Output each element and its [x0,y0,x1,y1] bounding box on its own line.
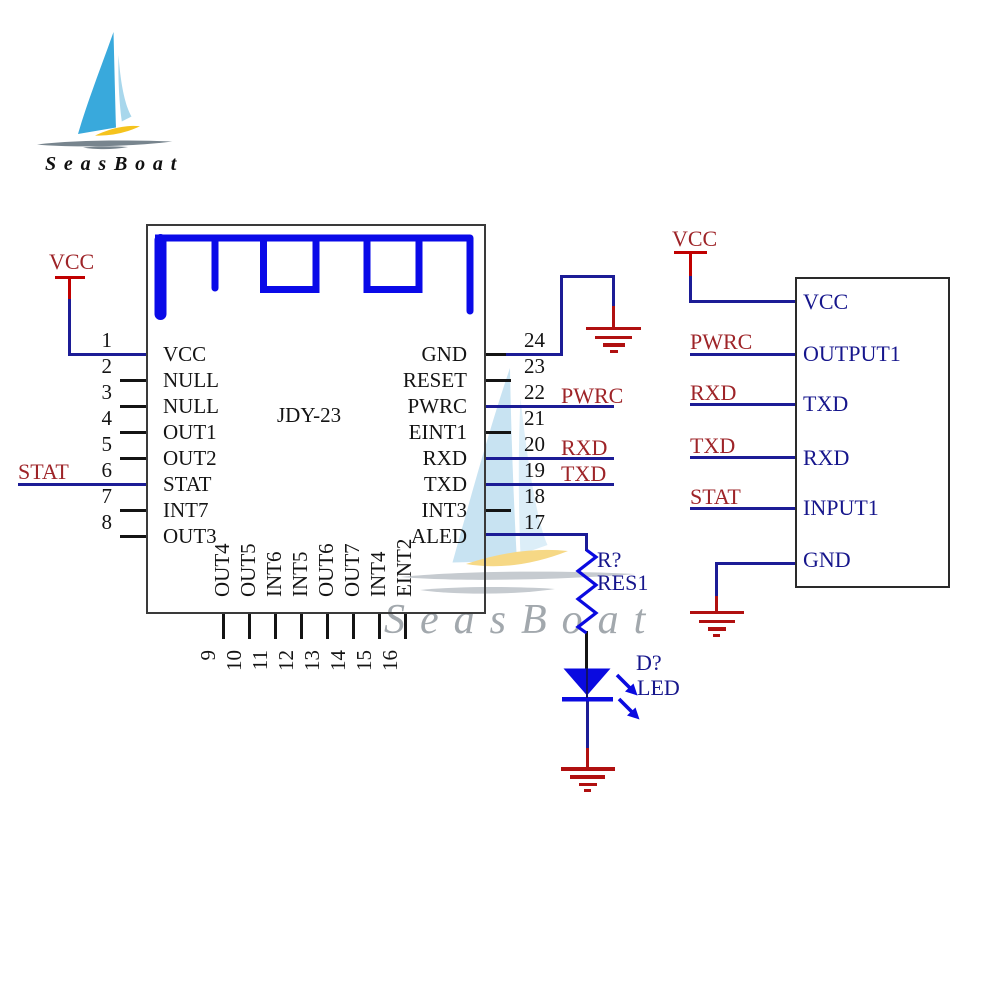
pin number 2 [0,356,112,377]
pin number 16 (rotated) [380,650,401,671]
IC value label JDY-23 [277,405,341,426]
block pin name GND [803,549,851,571]
pin 24 name GND [0,344,467,365]
block pin name OUTPUT1 [803,343,901,365]
pin 22 name PWRC [0,396,467,417]
LED D1 symbol with arrows [0,0,1000,765]
pin 4 name OUT1 [163,422,217,443]
pin 5 stub [120,457,147,460]
pin number 9 (rotated) [198,650,219,661]
wire VCC to block (vertical) [689,276,692,303]
pin number 17 [524,512,545,533]
resistor R1 RES1 zigzag [0,0,1000,765]
ground GND2 bar 4 [584,789,591,792]
pin 13 stub [326,613,329,639]
pin number 24 [524,330,545,351]
antenna ANT1 meander [0,0,520,365]
pin 23 name RESET [0,370,467,391]
wire pin 17 ALED (vertical to resistor) [585,533,588,551]
block pin name INPUT1 [803,497,879,519]
pin number 7 [0,486,112,507]
block pin name RXD [803,447,849,469]
wire pin 22 PWRC [484,405,614,408]
pin 1 name VCC [163,344,206,365]
resistor value RES1 [597,572,648,594]
pin number 5 [0,434,112,455]
pin 8 stub [120,535,147,538]
pin 24 stub [484,353,508,356]
pin number 1 [0,330,112,351]
pin number 18 [524,486,545,507]
pin number 6 [0,460,112,481]
wire PWRC to OUTPUT1 [690,353,796,356]
pin 2 name NULL [163,370,219,391]
pin 11 stub [274,613,277,639]
net label TXD (pin 19) [561,463,606,485]
pin 23 stub [484,379,511,382]
wire block GND (vertical) [715,562,718,598]
pin number 8 [0,512,112,533]
power symbol VCC (left) label [49,251,94,273]
ground GND2 bar 3 [579,783,597,787]
ground GND3 stem [715,596,718,612]
pin 3 stub [120,405,147,408]
pin number 14 (rotated) [328,650,349,671]
pin number 11 (rotated) [250,650,271,670]
ground GND1 bar 2 [595,336,632,340]
pin 11 name INT6 (rotated) [264,552,285,598]
wire pin 17 ALED (horizontal) [484,533,588,536]
net label STAT (left) [18,461,69,483]
pin number 10 (rotated) [224,650,245,671]
wire pin 24 to ground (horizontal from pin) [506,353,563,356]
wire RXD to TXD [690,403,796,406]
wire STAT to INPUT1 [690,507,796,510]
pin number 13 (rotated) [302,650,323,671]
wire pin 19 TXD [484,483,614,486]
pin 7 stub [120,509,147,512]
power symbol VCC (right) bar [674,251,707,254]
net label RXD (pin 20) [561,437,607,459]
block pin name TXD [803,393,848,415]
wire TXD to RXD [690,456,796,459]
pin number 15 (rotated) [354,650,375,671]
pin 10 name OUT5 (rotated) [238,543,259,597]
wire VCC to block VCC pin [689,300,797,303]
pin number 23 [524,356,545,377]
pin 16 name EINT2 (rotated) [394,539,415,597]
pin number 21 [524,408,545,429]
ground GND2 bar 2 [570,775,605,779]
power symbol VCC (right) label [672,228,717,250]
pin 4 stub [120,431,147,434]
pin 8 name OUT3 [163,526,217,547]
pin 18 stub [484,509,511,512]
pin 18 name INT3 [0,500,467,521]
power symbol VCC (left) bar [55,276,85,279]
wire LED cathode to ground [586,701,589,749]
net label TXD (right) [690,435,735,457]
ground GND1 bar 4 [610,350,618,353]
pin 12 stub [300,613,303,639]
pin number 12 (rotated) [276,650,297,671]
pin 20 name RXD [0,448,467,469]
net label PWRC (pin 22) [561,385,623,407]
pin number 19 [524,460,545,481]
net label RXD (right) [690,382,736,404]
net label PWRC (right) [690,331,752,353]
wire pin 24 to ground (vertical up) [560,275,563,355]
pin 9 name OUT4 (rotated) [212,543,233,597]
LED anode lead through triangle [586,668,589,698]
pin number 3 [0,382,112,403]
pin 10 stub [248,613,251,639]
IC U1 JDY-23 body [146,224,486,614]
pin 7 name INT7 [163,500,209,521]
pin 17 name ALED [0,526,467,547]
LED value label [637,677,680,699]
ground GND1 stem [612,306,615,328]
wire VCC to pin 1 (vertical) [68,299,71,354]
pin 6 name STAT [163,474,212,495]
ground GND3 bar 2 [699,620,735,624]
connector block U2 body [795,277,950,588]
pin 21 stub [484,431,511,434]
wire VCC to pin 1 (horizontal) [68,353,147,356]
pin 19 name TXD [0,474,467,495]
wire pin 24 to ground (top horizontal) [560,275,615,278]
ground GND1 bar 3 [603,343,625,347]
ground GND1 bar 1 [586,327,641,331]
pin 3 name NULL [163,396,219,417]
pin number 20 [524,434,545,455]
ground GND3 bar 4 [713,634,720,637]
pin 12 name INT5 (rotated) [290,552,311,598]
resistor designator R? [597,549,621,571]
pin 16 stub [404,613,407,639]
wire STAT to pin 6 [18,483,147,486]
pin 15 name INT4 (rotated) [368,552,389,598]
pin 13 name OUT6 (rotated) [316,543,337,597]
ground GND3 bar 1 [690,611,744,615]
pin 21 name EINT1 [0,422,467,443]
pin number 4 [0,408,112,429]
net label STAT (right) [690,486,741,508]
ground GND2 stem [586,748,589,768]
pin 15 stub [378,613,381,639]
pin 14 name OUT7 (rotated) [342,543,363,597]
pin 14 stub [352,613,355,639]
power symbol VCC (left) stem [68,276,71,300]
wire pin 20 RXD [484,457,614,460]
wire block GND (horizontal) [715,562,795,565]
pin 5 name OUT2 [163,448,217,469]
ground GND3 bar 3 [708,627,726,631]
ground GND2 bar 1 [561,767,615,771]
pin number 22 [524,382,545,403]
power symbol VCC (right) stem [689,251,692,277]
wire pin 24 to ground (vertical down) [612,275,615,308]
pin 2 stub [120,379,147,382]
pin 9 stub [222,613,225,639]
block pin name VCC [803,291,848,313]
wire resistor to LED [585,631,588,669]
LED designator D? [636,652,662,674]
SeasBoat logo (top-left) [0,0,220,205]
